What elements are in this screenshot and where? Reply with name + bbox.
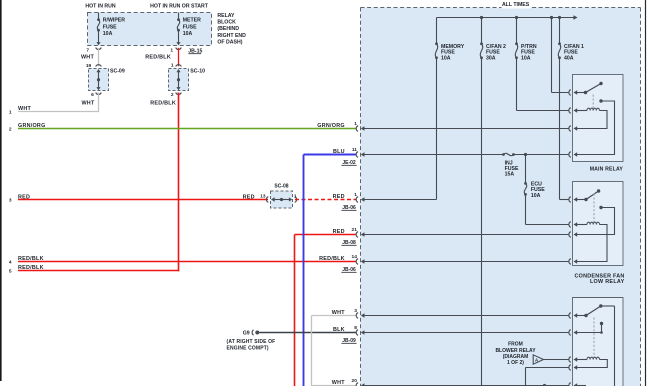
svg-text:ALL TIMES: ALL TIMES (502, 2, 530, 8)
svg-text:RED/BLK: RED/BLK (18, 256, 44, 262)
svg-text:2: 2 (171, 92, 174, 98)
svg-text:30A: 30A (486, 56, 496, 62)
svg-text:METER: METER (183, 18, 201, 24)
svg-text:HOT IN RUN OR START: HOT IN RUN OR START (150, 4, 209, 10)
svg-text:SC-10: SC-10 (190, 69, 205, 75)
svg-text:WHT: WHT (332, 380, 345, 386)
svg-text:8: 8 (354, 325, 357, 331)
svg-text:1: 1 (9, 109, 12, 115)
svg-text:20: 20 (352, 378, 358, 384)
svg-text:19: 19 (86, 63, 92, 69)
svg-text:14: 14 (352, 254, 358, 260)
svg-text:RED/BLK: RED/BLK (145, 55, 171, 61)
svg-text:RED: RED (18, 194, 30, 200)
svg-text:ENGINE COMPT): ENGINE COMPT) (227, 346, 269, 352)
svg-text:1: 1 (354, 192, 357, 198)
svg-text:BLOCK: BLOCK (217, 20, 236, 26)
svg-text:(AT RIGHT SIDE OF: (AT RIGHT SIDE OF (227, 339, 276, 345)
svg-text:WHT: WHT (332, 310, 345, 316)
svg-text:1: 1 (170, 48, 173, 54)
svg-text:WHT: WHT (18, 106, 31, 112)
svg-text:R/WIPER: R/WIPER (103, 18, 125, 24)
svg-text:GRN/ORG: GRN/ORG (317, 123, 345, 129)
svg-text:(BEHIND: (BEHIND (217, 26, 239, 32)
svg-text:SC-08: SC-08 (274, 184, 288, 190)
svg-text:7: 7 (86, 48, 89, 54)
svg-text:HOT IN RUN: HOT IN RUN (85, 4, 116, 10)
svg-text:2: 2 (9, 126, 12, 132)
svg-text:10A: 10A (103, 31, 113, 37)
svg-text:GRN/ORG: GRN/ORG (18, 123, 46, 129)
svg-text:4: 4 (9, 260, 12, 266)
svg-text:BLK: BLK (333, 327, 345, 333)
svg-text:3: 3 (354, 308, 357, 314)
svg-text:WHT: WHT (81, 100, 94, 106)
svg-text:3: 3 (9, 197, 12, 203)
svg-text:40A: 40A (564, 56, 574, 62)
svg-text:RED: RED (243, 194, 255, 200)
svg-text:6: 6 (91, 92, 94, 98)
svg-text:LOW RELAY: LOW RELAY (590, 279, 625, 285)
svg-text:WHT: WHT (81, 55, 94, 61)
svg-text:1 OF 2): 1 OF 2) (507, 360, 524, 366)
svg-text:RIGHT END: RIGHT END (217, 33, 246, 39)
svg-text:RED: RED (333, 229, 345, 235)
svg-text:1: 1 (171, 63, 174, 69)
svg-text:RED: RED (333, 194, 345, 200)
svg-text:G9: G9 (243, 330, 250, 336)
svg-text:15A: 15A (505, 172, 515, 178)
svg-text:OF DASH): OF DASH) (217, 40, 242, 46)
svg-text:10A: 10A (531, 193, 541, 199)
svg-text:FUSE: FUSE (103, 24, 117, 30)
svg-text:10A: 10A (441, 56, 451, 62)
svg-text:1: 1 (354, 121, 357, 127)
svg-text:MAIN RELAY: MAIN RELAY (590, 167, 624, 173)
svg-text:21: 21 (352, 227, 358, 233)
svg-text:10A: 10A (183, 31, 193, 37)
svg-text:5: 5 (9, 269, 12, 275)
svg-text:RED/BLK: RED/BLK (319, 256, 345, 262)
svg-text:SC-09: SC-09 (110, 69, 125, 75)
svg-text:13: 13 (260, 194, 266, 200)
svg-text:11: 11 (352, 147, 357, 153)
svg-text:10A: 10A (521, 56, 531, 62)
svg-text:RELAY: RELAY (217, 13, 235, 19)
svg-text:BLU: BLU (333, 149, 345, 155)
svg-text:RED/BLK: RED/BLK (18, 265, 44, 271)
svg-text:FROM: FROM (508, 341, 523, 347)
svg-text:FUSE: FUSE (183, 24, 197, 30)
svg-text:RED/BLK: RED/BLK (150, 100, 176, 106)
